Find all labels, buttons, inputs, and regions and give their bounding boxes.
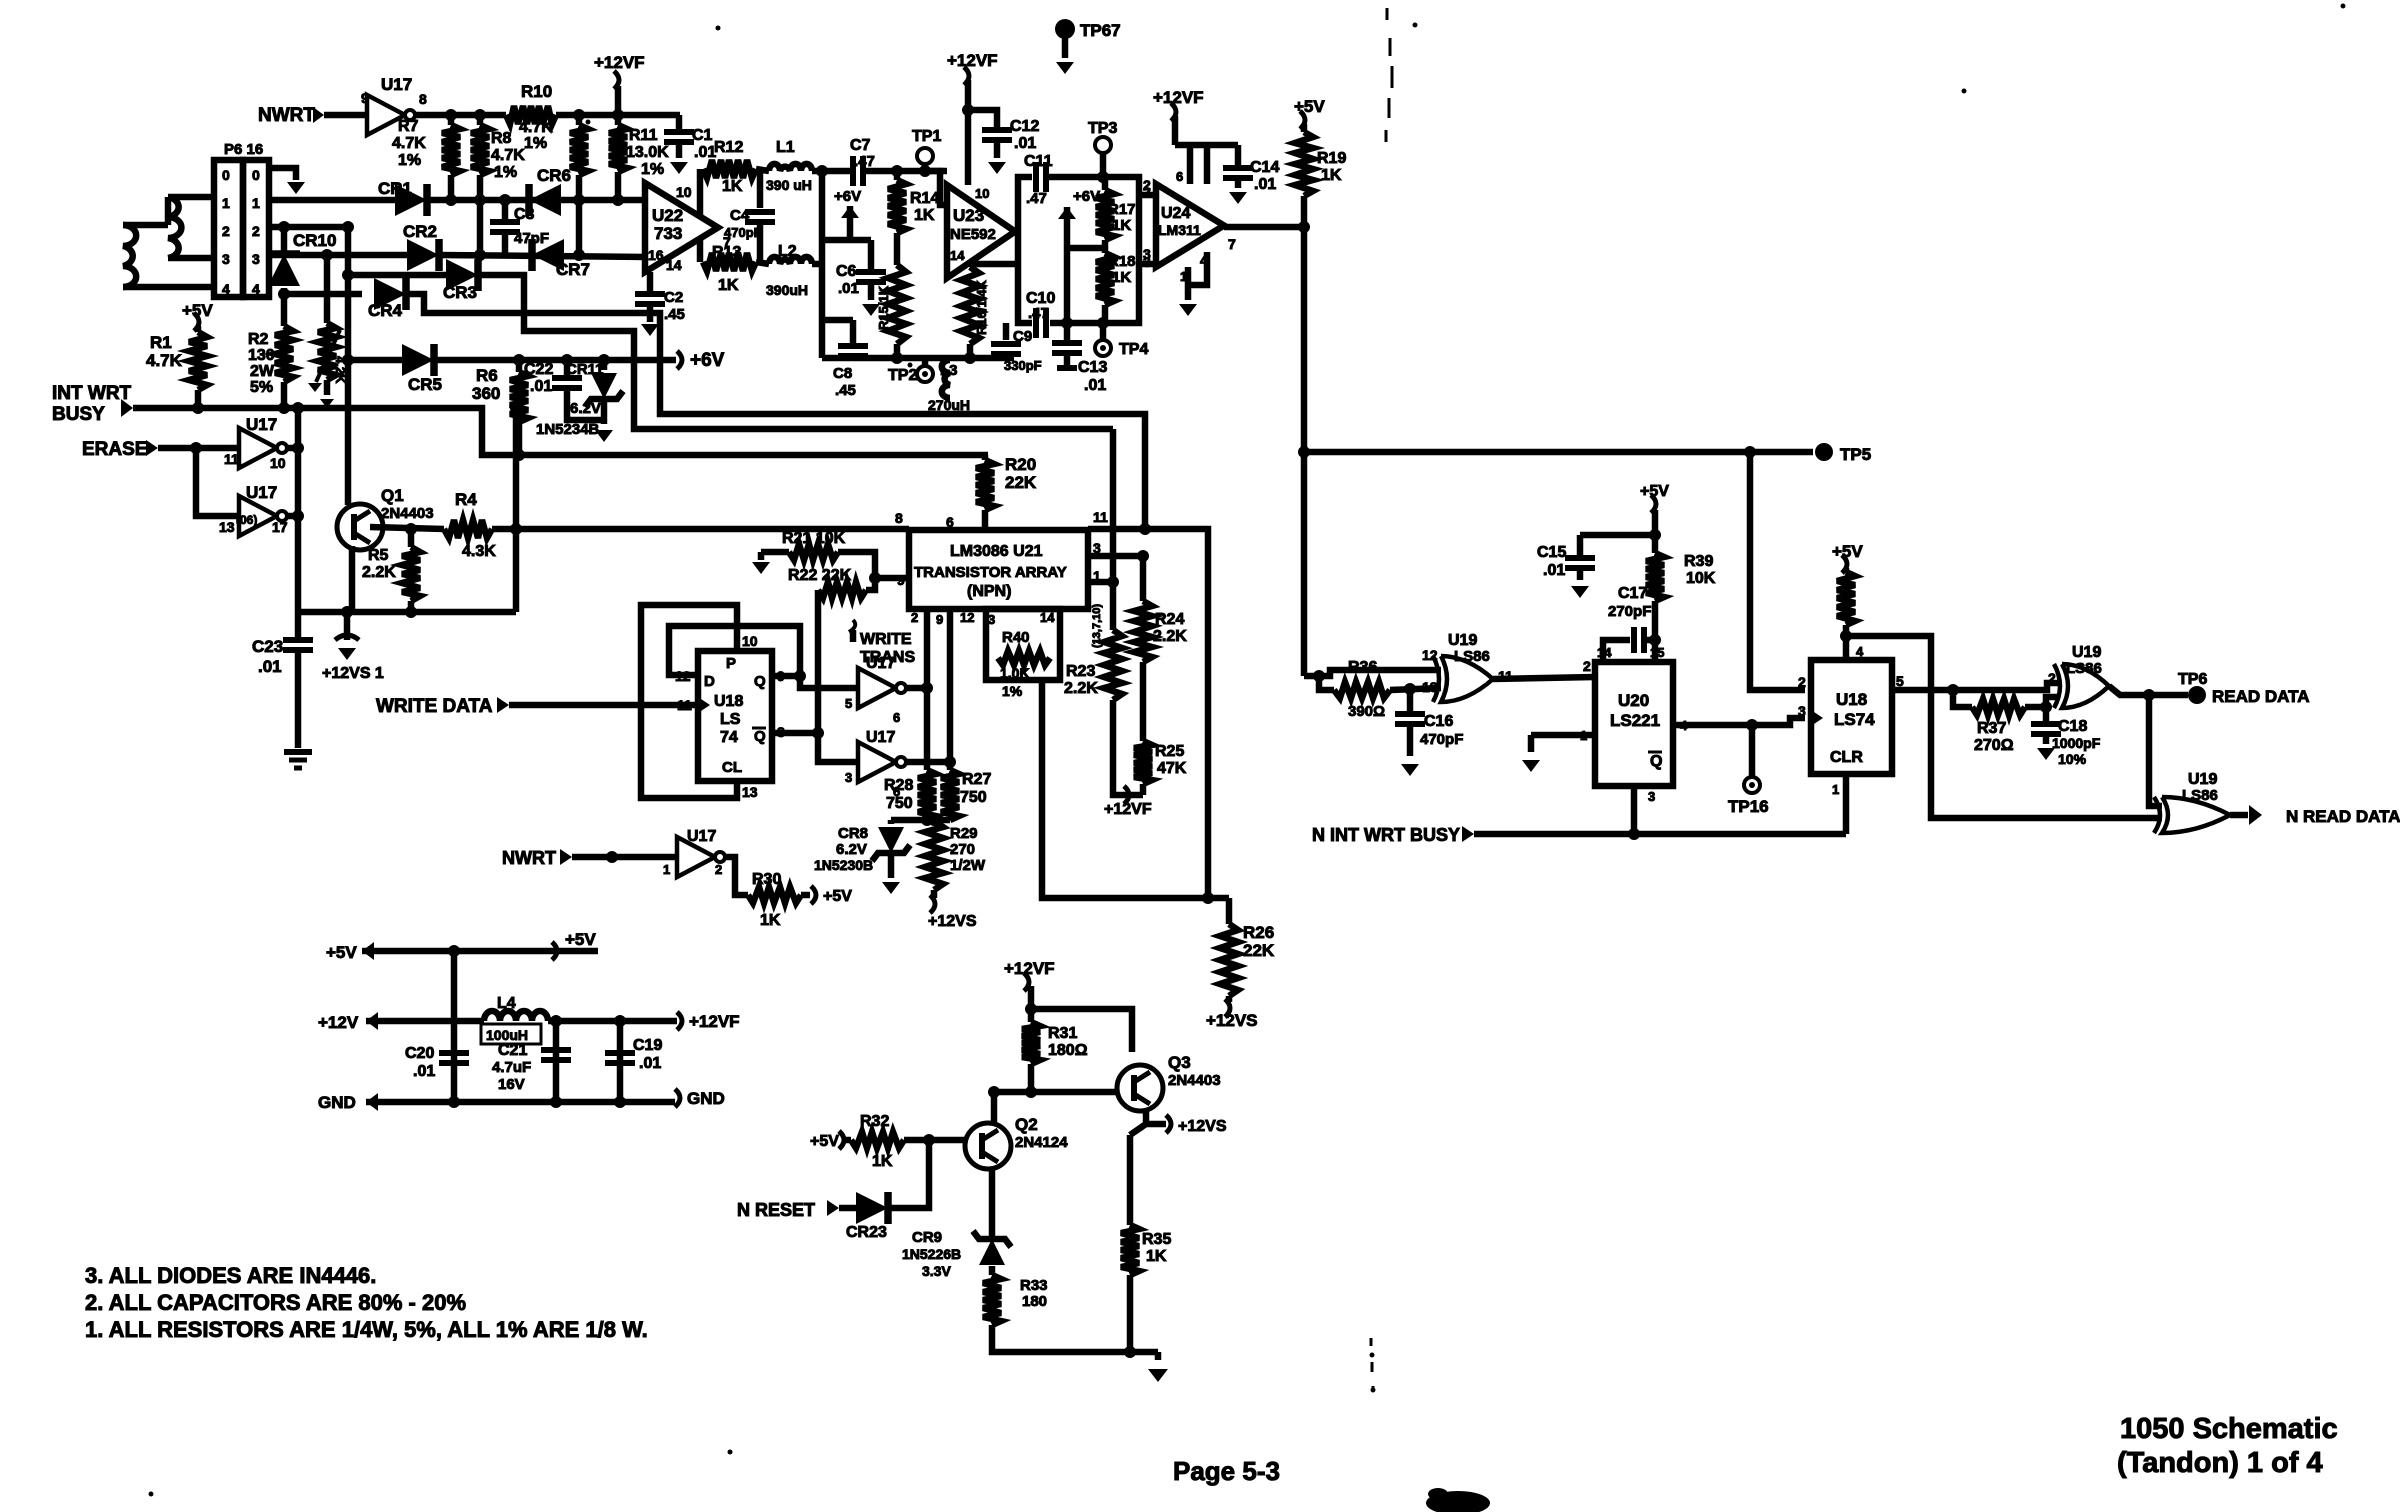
svg-text:11: 11 xyxy=(224,451,239,467)
svg-text:U17: U17 xyxy=(866,655,895,672)
svg-text:1.0K: 1.0K xyxy=(1000,665,1030,681)
svg-text:C11: C11 xyxy=(1024,153,1053,170)
svg-text:3: 3 xyxy=(1143,254,1151,270)
svg-text:R24: R24 xyxy=(1155,611,1184,628)
svg-text:U18: U18 xyxy=(714,693,743,710)
svg-text:TP4: TP4 xyxy=(1119,341,1148,358)
svg-text:+5V: +5V xyxy=(1640,483,1669,500)
svg-text:C9: C9 xyxy=(1013,328,1032,345)
svg-text:ERASE: ERASE xyxy=(82,439,147,460)
svg-text:R35: R35 xyxy=(1142,1231,1171,1248)
svg-text:R28: R28 xyxy=(884,777,913,794)
svg-text:16V: 16V xyxy=(498,1076,525,1093)
svg-text:12: 12 xyxy=(960,610,974,625)
svg-text:(Tandon) 1 of 4: (Tandon) 1 of 4 xyxy=(2117,1447,2323,1479)
svg-text:CL: CL xyxy=(722,759,742,776)
svg-text:4: 4 xyxy=(222,281,230,297)
svg-text:R13: R13 xyxy=(712,244,741,261)
svg-text:C12: C12 xyxy=(1010,118,1039,135)
svg-text:U17: U17 xyxy=(381,75,412,94)
svg-text:+5V: +5V xyxy=(810,1133,839,1150)
svg-text:750: 750 xyxy=(960,789,987,806)
svg-text:2N4124: 2N4124 xyxy=(1015,1134,1068,1151)
svg-text:C21: C21 xyxy=(498,1042,527,1059)
svg-text:P6 16: P6 16 xyxy=(224,141,263,158)
svg-text:2W: 2W xyxy=(250,363,275,380)
svg-text:2. ALL CAPACITORS ARE 80% - 20: 2. ALL CAPACITORS ARE 80% - 20% xyxy=(85,1290,466,1315)
svg-text:3: 3 xyxy=(1648,789,1655,804)
svg-text:6: 6 xyxy=(893,710,900,725)
svg-text:2N4403: 2N4403 xyxy=(381,505,434,522)
svg-text:5%: 5% xyxy=(250,379,273,396)
svg-text:3. ALL DIODES ARE IN4446.: 3. ALL DIODES ARE IN4446. xyxy=(85,1263,376,1288)
svg-text:WRITE: WRITE xyxy=(860,631,912,648)
svg-text:CR9: CR9 xyxy=(912,1229,942,1246)
svg-text:R14: R14 xyxy=(910,190,939,207)
svg-text:N READ DATA: N READ DATA xyxy=(2286,807,2400,826)
svg-text:1K: 1K xyxy=(718,277,739,294)
svg-text:1K: 1K xyxy=(1112,217,1131,234)
svg-text:2: 2 xyxy=(911,610,918,625)
svg-text:330pF: 330pF xyxy=(1004,358,1042,373)
svg-text:13.0K: 13.0K xyxy=(626,144,669,161)
svg-text:R23: R23 xyxy=(1066,663,1095,680)
svg-text:+5V: +5V xyxy=(326,943,357,962)
svg-text:4.3K: 4.3K xyxy=(462,543,496,560)
svg-text:LS: LS xyxy=(720,711,741,728)
svg-text:U17: U17 xyxy=(866,729,895,746)
svg-text:2.2K: 2.2K xyxy=(1153,628,1187,645)
svg-text:1K: 1K xyxy=(1321,167,1342,184)
svg-text:2: 2 xyxy=(715,862,722,877)
svg-text:8: 8 xyxy=(419,91,427,107)
svg-text:5: 5 xyxy=(1896,673,1904,689)
svg-text:U19: U19 xyxy=(2072,644,2101,661)
svg-text:U17: U17 xyxy=(246,483,277,502)
svg-text:U17: U17 xyxy=(246,415,277,434)
svg-text:U19: U19 xyxy=(2188,771,2217,788)
svg-text:R30: R30 xyxy=(752,871,781,888)
svg-text:.45: .45 xyxy=(664,306,685,323)
svg-text:L3: L3 xyxy=(940,362,958,379)
svg-text:1. ALL RESISTORS ARE 1/4W, 5%,: 1. ALL RESISTORS ARE 1/4W, 5%, ALL 1% AR… xyxy=(85,1317,648,1342)
svg-text:C6: C6 xyxy=(836,263,857,280)
svg-text:4.7K: 4.7K xyxy=(392,135,426,152)
svg-text:270pF: 270pF xyxy=(1608,603,1651,620)
svg-text:TRANSISTOR ARRAY: TRANSISTOR ARRAY xyxy=(914,564,1067,581)
svg-text:2: 2 xyxy=(1798,674,1806,690)
svg-text:U19: U19 xyxy=(1448,632,1477,649)
svg-text:C17: C17 xyxy=(1618,585,1647,602)
svg-text:10K: 10K xyxy=(1686,570,1716,587)
svg-text:C7: C7 xyxy=(850,137,871,154)
svg-text:CR5: CR5 xyxy=(408,375,442,394)
svg-text:0: 0 xyxy=(252,167,260,183)
svg-text:C13: C13 xyxy=(1078,359,1107,376)
svg-text:R4: R4 xyxy=(455,490,477,509)
svg-text:N RESET: N RESET xyxy=(737,1200,815,1220)
svg-text:Q1: Q1 xyxy=(381,486,404,505)
svg-text:+6V: +6V xyxy=(834,188,861,205)
svg-text:.01: .01 xyxy=(694,144,716,161)
svg-text:1K: 1K xyxy=(722,178,743,195)
svg-text:L2: L2 xyxy=(778,243,797,260)
svg-text:10: 10 xyxy=(742,633,758,649)
svg-text:.45: .45 xyxy=(835,382,856,399)
svg-text:2N4403: 2N4403 xyxy=(1168,1072,1221,1089)
svg-text:2.2K: 2.2K xyxy=(362,564,396,581)
svg-text:LS86: LS86 xyxy=(1454,648,1490,665)
svg-text:6: 6 xyxy=(946,514,954,530)
svg-text:C4: C4 xyxy=(730,207,750,224)
svg-text:U22: U22 xyxy=(652,206,683,225)
svg-text:2: 2 xyxy=(1143,184,1151,200)
svg-text:1%: 1% xyxy=(524,135,547,152)
svg-text:C18: C18 xyxy=(2058,718,2087,735)
svg-text:TP5: TP5 xyxy=(1840,445,1871,464)
svg-text:D: D xyxy=(704,673,715,690)
svg-text:U18: U18 xyxy=(1836,690,1867,709)
svg-text:L1: L1 xyxy=(776,139,795,156)
svg-text:+12V: +12V xyxy=(318,1013,359,1032)
svg-text:CR6: CR6 xyxy=(537,166,571,185)
svg-text:R40: R40 xyxy=(1002,629,1030,646)
svg-text:L4: L4 xyxy=(497,995,516,1012)
svg-text:6: 6 xyxy=(1176,169,1183,184)
svg-text:+12VF: +12VF xyxy=(689,1012,740,1031)
svg-text:CR7: CR7 xyxy=(556,260,590,279)
svg-text:R5: R5 xyxy=(368,547,389,564)
svg-text:Q3: Q3 xyxy=(1168,1053,1191,1072)
svg-text:270: 270 xyxy=(950,841,975,858)
svg-text:1K: 1K xyxy=(872,1153,893,1170)
svg-text:13: 13 xyxy=(742,784,758,800)
svg-text:2: 2 xyxy=(1583,658,1591,674)
svg-text:CR2: CR2 xyxy=(403,222,437,241)
svg-text:U17: U17 xyxy=(687,828,716,845)
svg-text:4.7K: 4.7K xyxy=(146,351,183,370)
svg-text:R32: R32 xyxy=(860,1113,889,1130)
svg-text:10: 10 xyxy=(270,455,286,471)
svg-text:74: 74 xyxy=(720,729,738,746)
svg-text:1K: 1K xyxy=(914,207,935,224)
svg-text:R21 10K: R21 10K xyxy=(782,530,846,547)
svg-text:R25: R25 xyxy=(1155,743,1184,760)
svg-text:4.7uF: 4.7uF xyxy=(492,1059,531,1076)
svg-text:.01: .01 xyxy=(639,1055,661,1072)
svg-text:+12VF: +12VF xyxy=(947,51,998,70)
svg-text:R1: R1 xyxy=(150,333,172,352)
svg-text:R20: R20 xyxy=(1005,455,1036,474)
svg-text:TP2: TP2 xyxy=(888,367,917,384)
svg-text:TP6: TP6 xyxy=(2178,671,2207,688)
svg-text:CR11: CR11 xyxy=(566,361,604,378)
svg-text:CR3: CR3 xyxy=(443,283,477,302)
svg-text:22K: 22K xyxy=(1243,941,1275,960)
svg-text:3.3V: 3.3V xyxy=(922,1263,951,1279)
svg-text:1K: 1K xyxy=(1146,1248,1167,1265)
svg-text:.47: .47 xyxy=(1026,190,1047,207)
svg-text:270uH: 270uH xyxy=(928,397,970,413)
svg-text:R12: R12 xyxy=(714,139,743,156)
svg-text:NWRT: NWRT xyxy=(502,848,556,868)
svg-text:+12VS 1: +12VS 1 xyxy=(322,665,384,682)
svg-text:733: 733 xyxy=(654,224,682,243)
svg-text:(NPN): (NPN) xyxy=(967,583,1011,600)
svg-text:4.2K: 4.2K xyxy=(333,356,348,384)
svg-text:2.2K: 2.2K xyxy=(1064,680,1098,697)
svg-text:1N5226B: 1N5226B xyxy=(902,1246,961,1262)
svg-text:1: 1 xyxy=(222,195,230,211)
svg-text:TP67: TP67 xyxy=(1080,21,1121,40)
svg-text:1050 Schematic: 1050 Schematic xyxy=(2120,1413,2338,1445)
svg-text:390uH: 390uH xyxy=(766,282,808,298)
svg-text:Q: Q xyxy=(1650,753,1662,770)
svg-text:C20: C20 xyxy=(405,1045,434,1062)
svg-text:12: 12 xyxy=(1422,647,1438,663)
svg-text:9: 9 xyxy=(936,612,943,627)
svg-text:390Ω: 390Ω xyxy=(1348,703,1385,720)
svg-text:750: 750 xyxy=(886,795,913,812)
svg-text:1: 1 xyxy=(252,195,260,211)
svg-text:R18: R18 xyxy=(1108,253,1136,270)
svg-text:130: 130 xyxy=(248,347,275,364)
svg-text:NE592: NE592 xyxy=(950,226,996,243)
svg-text:P: P xyxy=(726,655,736,672)
svg-text:CR10: CR10 xyxy=(293,231,336,250)
svg-text:N INT WRT BUSY: N INT WRT BUSY xyxy=(1312,825,1460,845)
svg-text:1K: 1K xyxy=(760,912,781,929)
svg-text:8: 8 xyxy=(895,510,903,526)
svg-text:(06): (06) xyxy=(236,513,257,527)
svg-text:WRITE DATA: WRITE DATA xyxy=(376,696,493,717)
svg-text:C2: C2 xyxy=(664,289,683,306)
svg-text:+12VS: +12VS xyxy=(1178,1118,1227,1135)
svg-text:C19: C19 xyxy=(633,1037,662,1054)
svg-text:.01: .01 xyxy=(1014,135,1036,152)
svg-text:5: 5 xyxy=(845,696,852,711)
svg-text:.01: .01 xyxy=(258,657,282,676)
svg-text:.01: .01 xyxy=(1084,377,1106,394)
svg-text:R37: R37 xyxy=(1977,720,2006,737)
svg-text:R22 22K: R22 22K xyxy=(788,567,852,584)
svg-text:R17: R17 xyxy=(1108,201,1136,218)
svg-text:1/2W: 1/2W xyxy=(950,857,986,874)
svg-text:14: 14 xyxy=(666,257,682,273)
svg-text:LS86: LS86 xyxy=(2182,787,2218,804)
svg-text:3: 3 xyxy=(222,251,230,267)
svg-text:+12VF: +12VF xyxy=(1153,88,1204,107)
svg-text:0: 0 xyxy=(222,167,230,183)
svg-text:1: 1 xyxy=(1832,782,1839,797)
svg-text:17: 17 xyxy=(272,519,288,535)
svg-text:+12VF: +12VF xyxy=(1104,801,1152,818)
svg-text:390 uH: 390 uH xyxy=(766,177,812,193)
svg-text:.47: .47 xyxy=(1028,305,1049,322)
svg-text:1N5234B: 1N5234B xyxy=(536,421,600,438)
svg-text:R33: R33 xyxy=(1020,1277,1048,1294)
svg-text:CR4: CR4 xyxy=(368,301,403,320)
svg-text:3: 3 xyxy=(845,770,852,785)
svg-text:+12VS: +12VS xyxy=(928,913,977,930)
svg-text:+5V: +5V xyxy=(565,930,596,949)
svg-text:R26: R26 xyxy=(1243,923,1274,942)
svg-text:10%: 10% xyxy=(2058,751,2087,767)
svg-text:C23: C23 xyxy=(252,637,283,656)
svg-text:2: 2 xyxy=(222,223,230,239)
svg-text:6.2V: 6.2V xyxy=(836,841,867,858)
svg-text:2: 2 xyxy=(252,223,260,239)
svg-text:1%: 1% xyxy=(1002,683,1023,699)
svg-text:.01: .01 xyxy=(530,378,552,395)
svg-text:180Ω: 180Ω xyxy=(1048,1042,1088,1059)
svg-text:R39: R39 xyxy=(1684,553,1713,570)
svg-text:LS221: LS221 xyxy=(1610,711,1660,730)
svg-text:R31: R31 xyxy=(1048,1025,1077,1042)
svg-text:R19: R19 xyxy=(1317,150,1346,167)
svg-text:+12VS: +12VS xyxy=(1206,1011,1258,1030)
svg-text:R6: R6 xyxy=(476,366,498,385)
svg-text:1%: 1% xyxy=(494,164,517,181)
svg-text:R27: R27 xyxy=(962,771,991,788)
svg-text:180: 180 xyxy=(1022,1293,1047,1310)
svg-text:LM311: LM311 xyxy=(1158,222,1201,238)
svg-text:CR8: CR8 xyxy=(838,825,868,842)
svg-text:+5V: +5V xyxy=(823,888,852,905)
svg-text:.01: .01 xyxy=(1254,176,1276,193)
svg-text:Q: Q xyxy=(754,673,766,690)
svg-text:4.7K: 4.7K xyxy=(519,119,553,136)
svg-text:C3: C3 xyxy=(514,206,535,223)
svg-text:+12VF: +12VF xyxy=(594,53,645,72)
svg-text:270Ω: 270Ω xyxy=(1974,737,2014,754)
svg-text:1000pF: 1000pF xyxy=(2052,735,2101,751)
svg-text:R8: R8 xyxy=(491,130,512,147)
svg-text:.47: .47 xyxy=(854,153,875,170)
svg-text:TP1: TP1 xyxy=(912,128,941,145)
svg-text:C15: C15 xyxy=(1537,544,1566,561)
svg-text:4: 4 xyxy=(1680,718,1688,733)
svg-text:C1: C1 xyxy=(692,127,713,144)
svg-text:Q: Q xyxy=(754,728,766,745)
svg-text:CLR: CLR xyxy=(1830,749,1863,766)
svg-text:TP3: TP3 xyxy=(1088,120,1117,137)
svg-text:U20: U20 xyxy=(1618,691,1649,710)
svg-text:TP16: TP16 xyxy=(1728,797,1769,816)
svg-text:.01: .01 xyxy=(838,280,859,297)
svg-text:CR1: CR1 xyxy=(378,179,412,198)
svg-text:Q2: Q2 xyxy=(1015,1115,1038,1134)
svg-text:U23: U23 xyxy=(953,206,984,225)
svg-text:22K: 22K xyxy=(1005,473,1037,492)
svg-text:C16: C16 xyxy=(1424,713,1453,730)
svg-text:C22: C22 xyxy=(524,361,553,378)
svg-text:GND: GND xyxy=(687,1089,725,1108)
svg-text:.01: .01 xyxy=(1543,562,1565,579)
svg-text:16: 16 xyxy=(648,247,664,263)
svg-text:3: 3 xyxy=(1798,703,1806,719)
svg-text:11: 11 xyxy=(1093,509,1108,525)
svg-text:LM3086 U21: LM3086 U21 xyxy=(950,543,1043,560)
svg-text:R10: R10 xyxy=(521,82,552,101)
svg-text:1N5230B: 1N5230B xyxy=(814,857,873,873)
svg-text:R16/1.4K: R16/1.4K xyxy=(974,279,989,335)
svg-text:10: 10 xyxy=(975,186,989,201)
svg-text:Page 5-3: Page 5-3 xyxy=(1173,1456,1280,1486)
svg-text:R15/1K: R15/1K xyxy=(876,285,891,330)
svg-text:U24: U24 xyxy=(1161,205,1190,222)
svg-text:13: 13 xyxy=(219,519,235,535)
svg-text:47K: 47K xyxy=(1157,760,1187,777)
svg-text:R2: R2 xyxy=(248,331,269,348)
svg-text:READ DATA: READ DATA xyxy=(2212,687,2310,706)
svg-text:LS86: LS86 xyxy=(2066,660,2102,677)
svg-text:470pF: 470pF xyxy=(724,225,762,240)
svg-text:2: 2 xyxy=(2048,670,2056,686)
svg-text:+12VF: +12VF xyxy=(1004,959,1055,978)
svg-text:100uH: 100uH xyxy=(486,1027,528,1043)
svg-text:4: 4 xyxy=(252,281,260,297)
svg-text:INT WRT: INT WRT xyxy=(52,383,132,404)
svg-text:NWRT: NWRT xyxy=(258,105,315,126)
svg-text:1K: 1K xyxy=(1112,269,1131,286)
svg-text:+5V: +5V xyxy=(182,301,213,320)
svg-text:1%: 1% xyxy=(641,161,664,178)
svg-text:C14: C14 xyxy=(1250,159,1279,176)
svg-text:BUSY: BUSY xyxy=(52,404,105,425)
svg-text:6.2V: 6.2V xyxy=(570,400,601,417)
svg-text:LS74: LS74 xyxy=(1834,710,1875,729)
svg-text:R7: R7 xyxy=(398,118,419,135)
svg-text:1%: 1% xyxy=(398,152,421,169)
svg-text:14: 14 xyxy=(950,248,965,263)
svg-text:R11: R11 xyxy=(629,127,658,144)
svg-text:9: 9 xyxy=(897,572,905,588)
svg-text:13: 13 xyxy=(1422,679,1438,695)
svg-text:3: 3 xyxy=(252,251,260,267)
svg-text:470pF: 470pF xyxy=(1420,731,1463,748)
svg-text:+6V: +6V xyxy=(1073,188,1100,205)
svg-text:CR23: CR23 xyxy=(846,1224,887,1241)
svg-text:7: 7 xyxy=(1228,236,1236,252)
svg-text:R36: R36 xyxy=(1348,659,1377,676)
svg-text:R29: R29 xyxy=(950,825,978,842)
svg-text:.01: .01 xyxy=(413,1063,435,1080)
svg-text:GND: GND xyxy=(318,1093,356,1112)
svg-text:C8: C8 xyxy=(833,365,852,382)
svg-text:47pF: 47pF xyxy=(514,230,549,247)
svg-text:360: 360 xyxy=(472,384,500,403)
svg-text:10: 10 xyxy=(676,184,692,200)
svg-text:1: 1 xyxy=(663,862,670,877)
svg-text:+6V: +6V xyxy=(690,350,725,371)
svg-text:4.7K: 4.7K xyxy=(491,147,525,164)
svg-text:9: 9 xyxy=(361,90,369,106)
